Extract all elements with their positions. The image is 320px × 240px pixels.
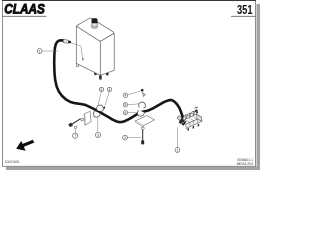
svg-text:3: 3 — [97, 133, 99, 137]
svg-text:6: 6 — [124, 111, 126, 115]
svg-text:5: 5 — [124, 103, 126, 107]
svg-text:MEGA 204: MEGA 204 — [237, 162, 254, 166]
svg-text:4: 4 — [124, 94, 126, 98]
svg-text:4: 4 — [109, 88, 111, 92]
svg-text:5: 5 — [101, 88, 103, 92]
svg-text:351: 351 — [237, 2, 253, 17]
svg-text:10021601: 10021601 — [5, 160, 20, 164]
svg-text:0045601.1: 0045601.1 — [237, 158, 253, 162]
svg-text:7: 7 — [74, 134, 76, 138]
svg-text:2: 2 — [124, 136, 126, 140]
svg-text:CLAAS: CLAAS — [4, 0, 45, 16]
svg-text:1: 1 — [39, 49, 41, 53]
svg-text:1: 1 — [176, 148, 178, 152]
